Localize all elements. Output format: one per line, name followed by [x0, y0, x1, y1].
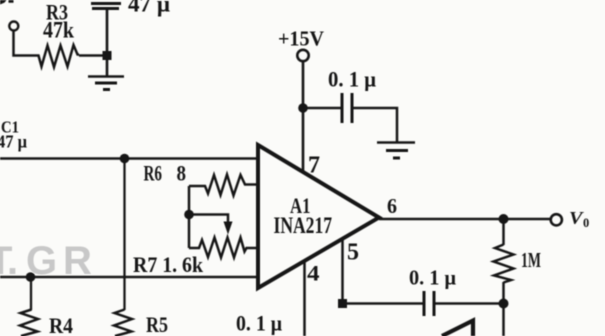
wire wiper: [189, 215, 228, 223]
wire 1M bottom lead: [502, 282, 505, 299]
resistor R3: [35, 45, 79, 67]
svg-text:0: 0: [583, 216, 589, 230]
svg-text:R7 1. 6k: R7 1. 6k: [133, 252, 204, 277]
wiper arrow of R7: [224, 222, 233, 235]
wire R4 lead: [30, 277, 32, 310]
svg-text:R4: R4: [49, 313, 73, 336]
svg-text:47k: 47k: [43, 18, 74, 43]
wire pin 4: [303, 261, 306, 336]
svg-text:5: 5: [347, 240, 359, 266]
svg-text:4: 4: [307, 261, 320, 286]
ground (bypass cap): [377, 143, 415, 159]
output terminal: [551, 214, 562, 225]
svg-text:8: 8: [177, 161, 187, 186]
capacitor 0.1u (feedback): [423, 291, 426, 316]
resistor 1M (vertical): [494, 245, 514, 283]
svg-text:R6: R6: [144, 161, 163, 186]
wire +15V down to pin 7: [302, 61, 305, 172]
junction (square) pin5 / cap: [338, 299, 347, 308]
svg-text:47 μ: 47 μ: [128, 0, 170, 17]
capacitor 0.1u (supply bypass): [341, 93, 344, 123]
node: junction bottom input / R4: [26, 272, 36, 282]
op-amp A1 triangle: [258, 145, 379, 288]
svg-text:0. 1 μ: 0. 1 μ: [409, 266, 456, 290]
junction (square) at R3/C2: [103, 51, 112, 60]
wire cap to output junction: [434, 302, 504, 305]
wire junction down (cut off): [502, 304, 505, 336]
svg-text:R5: R5: [146, 312, 168, 336]
resistor R4 (cut off at bottom): [20, 310, 38, 336]
ground (below R3 junction): [88, 77, 124, 90]
wire gain network left vertical: [188, 186, 191, 248]
resistor R7 (potentiometer): [189, 238, 258, 258]
watermark T.GR: [0, 239, 92, 283]
svg-text:6: 6: [387, 194, 397, 218]
wire non-inverting input (bottom line): [0, 276, 258, 279]
wire pin 5: [341, 240, 344, 304]
wire R3 to junction: [79, 54, 107, 57]
wire junction to bypass cap: [303, 107, 341, 110]
cut-off glyph top-left corner: [0, 0, 14, 5]
wire output pin 6: [379, 218, 551, 221]
resistor R6: [189, 175, 258, 196]
node: junction top input / R5: [120, 154, 130, 164]
wire pin5 junction to cap: [343, 302, 424, 305]
op-amp A2 (cut off bottom right): [442, 321, 473, 336]
wire terminal to R3: [14, 31, 36, 56]
junction +15V/bypass cap: [298, 103, 308, 113]
wire junction down to ground: [106, 56, 109, 77]
svg-text:INA217: INA217: [274, 213, 333, 238]
svg-text:0. 1 μ: 0. 1 μ: [236, 311, 282, 336]
node: wiper junction: [184, 210, 194, 220]
svg-text:7: 7: [308, 153, 320, 179]
wire junction up to capacitor C2: [106, 9, 109, 56]
svg-text:+15V: +15V: [278, 27, 324, 51]
svg-text:0. 1 μ: 0. 1 μ: [328, 67, 376, 92]
+15V terminal: [297, 50, 308, 61]
wire inverting input (top line): [0, 157, 258, 160]
input terminal (left, R3): [9, 22, 18, 31]
svg-text:47 μ: 47 μ: [0, 132, 27, 152]
resistor R5 (cut off at bottom): [114, 310, 132, 336]
wire R5 lead: [123, 159, 125, 311]
node: junction 1M / cap: [499, 299, 509, 309]
svg-text:1M: 1M: [521, 248, 541, 272]
capacitor C2 (cut off at top): [91, 2, 121, 5]
node: output junction: [499, 214, 509, 224]
wire bypass cap to ground: [352, 108, 397, 142]
wire 1M top lead: [502, 219, 505, 245]
